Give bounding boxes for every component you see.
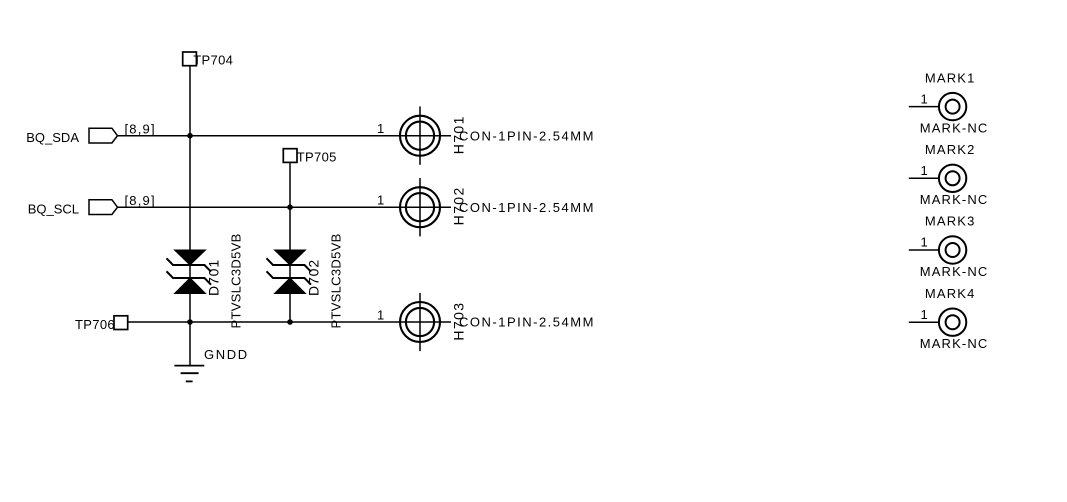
svg-text:MARK4: MARK4 (925, 286, 976, 301)
junction BQ_SDA at x=190 (187, 133, 193, 139)
svg-text:MARK-NC: MARK-NC (920, 336, 989, 351)
svg-text:BQ_SCL: BQ_SCL (28, 201, 79, 216)
svg-text:CON-1PIN-2.54MM: CON-1PIN-2.54MM (459, 128, 595, 143)
svg-text:CON-1PIN-2.54MM: CON-1PIN-2.54MM (459, 200, 595, 215)
connector H702 pad circles (400, 187, 440, 227)
svg-text:PTVSLC3D5VB: PTVSLC3D5VB (329, 233, 344, 328)
wire pin lead of MARK4 (909, 321, 938, 323)
node BQ_SCL sheet-entry flag (89, 200, 118, 215)
diode D701 bidirectional TVS body (167, 250, 212, 294)
connector H701 pin stem cross (419, 106, 421, 164)
connector H703 pad circles (400, 302, 440, 342)
junction BQ_SCL at x=290 (287, 204, 293, 210)
svg-text:[8,9]: [8,9] (125, 193, 156, 208)
diode D702 bidirectional TVS body (267, 250, 312, 294)
svg-text:BQ_SDA: BQ_SDA (26, 130, 79, 145)
svg-text:1: 1 (921, 163, 928, 178)
svg-text:CON-1PIN-2.54MM: CON-1PIN-2.54MM (459, 315, 595, 330)
svg-text:[8,9]: [8,9] (125, 122, 156, 137)
ground symbol GNDD (174, 366, 204, 382)
fiducial MARK4 pad circles (939, 309, 966, 336)
svg-text:MARK-NC: MARK-NC (920, 192, 989, 207)
svg-text:MARK-NC: MARK-NC (920, 264, 989, 279)
svg-text:D701: D701 (206, 259, 222, 296)
test point TP704 (183, 52, 197, 66)
connector H702 pin stem cross (419, 178, 421, 236)
wire ground net horizontal to H703 (128, 321, 451, 323)
fiducial MARK3 pad circles (939, 236, 966, 263)
svg-text:D702: D702 (306, 259, 322, 296)
svg-text:TP706: TP706 (75, 317, 115, 332)
svg-text:PTVSLC3D5VB: PTVSLC3D5VB (229, 233, 244, 328)
wire pin lead of MARK2 (909, 177, 938, 179)
svg-text:MARK1: MARK1 (925, 70, 976, 85)
svg-text:MARK2: MARK2 (925, 142, 976, 157)
wire vertical from TP704 through D701 to ground (189, 66, 191, 365)
wire vertical from TP705 through D702 to ground (289, 163, 291, 322)
svg-text:1: 1 (921, 235, 928, 250)
svg-text:1: 1 (377, 121, 384, 136)
connector H703 pin stem cross (419, 293, 421, 351)
fiducial MARK1 pad circles (939, 93, 966, 120)
svg-text:1: 1 (921, 307, 928, 322)
test point TP706 (114, 316, 128, 330)
svg-text:1: 1 (377, 308, 384, 323)
wire pin lead of MARK3 (909, 249, 938, 251)
svg-text:GNDD: GNDD (204, 347, 249, 362)
wire BQ_SDA horizontal to H701 (118, 135, 452, 137)
svg-text:MARK-NC: MARK-NC (920, 121, 989, 136)
svg-text:MARK3: MARK3 (925, 214, 976, 229)
junction ground net at x=290 (287, 319, 293, 325)
svg-text:1: 1 (921, 91, 928, 106)
test point TP705 (283, 149, 297, 163)
connector H701 pad circles (400, 116, 440, 156)
wire pin lead of MARK1 (909, 106, 938, 108)
svg-text:1: 1 (377, 193, 384, 208)
wire BQ_SCL horizontal to H702 (118, 206, 452, 208)
node BQ_SDA sheet-entry flag (89, 128, 118, 143)
junction ground net at x=190 (187, 319, 193, 325)
svg-text:TP704: TP704 (193, 52, 233, 67)
svg-text:TP705: TP705 (297, 150, 337, 165)
fiducial MARK2 pad circles (939, 165, 966, 192)
